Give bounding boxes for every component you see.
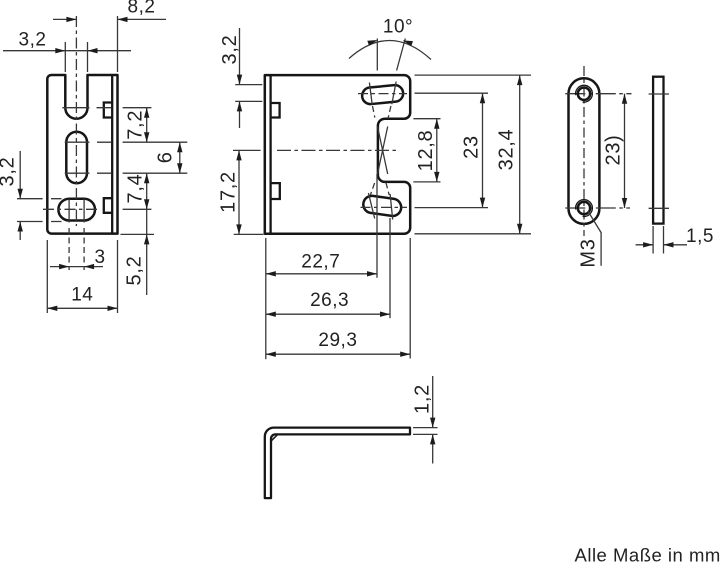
middle view upper tab bbox=[271, 103, 280, 118]
L profile outline bbox=[265, 428, 410, 499]
svg-text:3: 3 bbox=[94, 247, 105, 268]
left view bend inner line bbox=[111, 75, 113, 234]
construction line through bottom slot left bbox=[368, 193, 374, 219]
dimension 5,2 bbox=[146, 209, 148, 295]
oval bottom center line bbox=[65, 172, 188, 174]
svg-text:3,2: 3,2 bbox=[219, 35, 241, 65]
dimension 1,5 bbox=[653, 226, 663, 254]
dimension 7,2 bbox=[146, 108, 148, 143]
dashed swing lines lower bbox=[370, 183, 389, 196]
svg-text:Alle Maße in mm: Alle Maße in mm bbox=[575, 545, 720, 564]
dimension 1,2 bbox=[413, 428, 438, 435]
vertical reference line for 10 deg bbox=[376, 39, 378, 71]
middle view lower tab bbox=[271, 183, 280, 199]
svg-text:22,7: 22,7 bbox=[301, 252, 340, 273]
svg-text:M3: M3 bbox=[578, 238, 600, 267]
dimension 7,4 bbox=[146, 173, 148, 209]
inner bend fillet line bbox=[271, 435, 278, 442]
slot arc center line bbox=[62, 107, 151, 109]
dimension 26,3 bbox=[266, 313, 390, 315]
svg-text:8,2: 8,2 bbox=[128, 0, 156, 18]
top hole axis line bbox=[565, 93, 631, 95]
middle view horizontal centerline bbox=[233, 149, 261, 151]
svg-text:32,4: 32,4 bbox=[496, 129, 518, 171]
dimension 8,2 bbox=[117, 16, 119, 72]
top slot axis line bbox=[358, 93, 407, 95]
dimension 3,2 top bbox=[65, 42, 87, 72]
dimension 23) bbox=[624, 94, 626, 208]
dimension 32,4 bbox=[415, 75, 532, 234]
left view vertical oblong hole bbox=[66, 132, 87, 184]
tilted 10 deg line bbox=[397, 39, 406, 71]
middle view bracket outline bbox=[265, 75, 410, 234]
strip vertical centerline bbox=[583, 66, 585, 236]
bottom hole axis line bbox=[565, 207, 630, 209]
bottom M3 hole bbox=[578, 202, 590, 214]
svg-text:3,2: 3,2 bbox=[19, 30, 47, 51]
oval top center line bbox=[65, 141, 188, 143]
svg-text:29,3: 29,3 bbox=[318, 330, 357, 351]
middle view bottom slanted slot bbox=[363, 196, 401, 216]
svg-text:1,5: 1,5 bbox=[686, 226, 714, 247]
left view bracket outline bbox=[47, 75, 117, 234]
svg-text:7,2: 7,2 bbox=[124, 110, 146, 140]
svg-text:1,2: 1,2 bbox=[412, 384, 434, 414]
M3 leader line bbox=[588, 211, 601, 266]
dimension 23 middle bbox=[415, 93, 489, 207]
dimension 6 bbox=[179, 142, 181, 173]
bottom width extension lines bbox=[265, 238, 267, 359]
left view upper tab bbox=[104, 103, 112, 118]
middle view top slanted slot bbox=[362, 85, 403, 104]
construction line through top slot left bbox=[369, 83, 372, 105]
left view vertical centerline bbox=[75, 16, 77, 226]
strip outline bbox=[569, 78, 600, 224]
side strip outline bbox=[653, 77, 663, 224]
bottom hole center marks bbox=[69, 199, 84, 223]
dimension 22,7 bbox=[266, 273, 377, 275]
top M3 hole bbox=[578, 88, 590, 100]
svg-text:10°: 10° bbox=[383, 17, 413, 38]
svg-text:17,2: 17,2 bbox=[217, 171, 239, 213]
bottom slot axis line bbox=[361, 206, 408, 208]
dimension 17,2 bbox=[234, 233, 264, 235]
dimension 3,2 left bbox=[17, 199, 62, 222]
construction line through top slot right bbox=[392, 82, 396, 105]
svg-text:14: 14 bbox=[71, 285, 93, 306]
dimension 12,8 bbox=[413, 119, 440, 182]
svg-text:23: 23 bbox=[460, 135, 482, 159]
svg-text:12,8: 12,8 bbox=[415, 130, 437, 172]
svg-text:23): 23) bbox=[602, 134, 624, 165]
svg-text:6: 6 bbox=[155, 151, 177, 163]
dimension 3 bbox=[50, 266, 103, 268]
side strip hole axis ticks bbox=[649, 94, 669, 208]
svg-text:26,3: 26,3 bbox=[310, 290, 349, 311]
left view bottom oblong hole bbox=[58, 199, 95, 221]
svg-text:3,2: 3,2 bbox=[0, 157, 19, 187]
middle view bend inner line bbox=[269, 75, 271, 234]
dimension 14 bbox=[47, 240, 117, 313]
svg-text:7,4: 7,4 bbox=[124, 174, 146, 204]
swing cross in notch bbox=[378, 127, 388, 175]
svg-text:5,2: 5,2 bbox=[124, 256, 146, 286]
left view lower tab bbox=[104, 198, 112, 213]
construction line through bottom slot right bbox=[390, 194, 393, 220]
bottom edge extension line bbox=[121, 233, 155, 235]
bottom hole axis line bbox=[43, 208, 98, 210]
dimension 29,3 bbox=[266, 353, 410, 355]
dashed swing lines upper bbox=[373, 106, 391, 118]
angle dimension 10 deg arc bbox=[349, 40, 431, 59]
dimension 3,2 middle bbox=[235, 85, 262, 102]
